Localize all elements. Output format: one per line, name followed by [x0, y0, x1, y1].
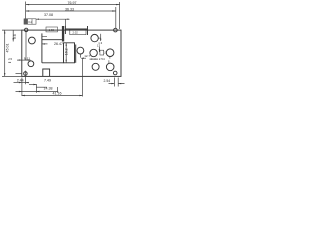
connector bar top-center [62, 26, 64, 42]
bottom ext 82.4 [82, 59, 84, 97]
dim line 37.08 [36, 19, 70, 26]
hole A extension [25, 32, 27, 60]
component rect center [64, 43, 75, 63]
bottom dim row1 [14, 82, 30, 84]
svg-text:26.47: 26.47 [54, 42, 63, 46]
board outline [22, 30, 121, 76]
svg-text:41.16: 41.16 [53, 91, 62, 95]
arrowheads 5.11 [19, 59, 22, 60]
leader 1.3 upper [100, 34, 102, 41]
feature frame box top-left [24, 19, 36, 24]
component top line [42, 39, 64, 41]
svg-text:1.63: 1.63 [49, 28, 55, 32]
tick below hole M2 [109, 56, 111, 58]
dim line 76.97 [26, 4, 120, 6]
hole A top-left small [25, 28, 28, 31]
arrowheads 14.38 [19, 91, 22, 92]
hole D left extension [16, 73, 23, 75]
bottom ext 36.4 [35, 84, 37, 93]
component bottom line left [42, 62, 64, 64]
svg-text:2.44: 2.44 [17, 79, 24, 83]
svg-text:0.2: 0.2 [28, 20, 32, 24]
hole BR bottom-right [106, 63, 114, 71]
top connector right vertical [87, 26, 89, 35]
arrowhead 13 leader [99, 49, 100, 52]
hole D bottom-left small [24, 72, 28, 76]
arrowhead 26.47 [42, 43, 45, 44]
bottom dim row3 41.16 [22, 95, 83, 97]
bottom dim row2 14.38 [16, 91, 59, 93]
hole mid with leader [77, 47, 84, 54]
arrowheads 16.2 [66, 43, 67, 46]
arrowheads 41.16 [22, 95, 25, 96]
bottom ext edge-left [21, 78, 23, 97]
arrowhead 12.7 [81, 58, 84, 59]
right dim 2.54 ext lines [114, 78, 118, 87]
svg-text:7.49: 7.49 [44, 79, 51, 83]
hole M1 mid-right [90, 49, 97, 56]
component second edge [75, 45, 77, 63]
svg-text:13: 13 [97, 44, 101, 48]
left small dim 9.6 [12, 30, 14, 41]
arrowheads 2.54 [111, 83, 114, 84]
hole B big left [29, 37, 36, 44]
dim line 36.33 [26, 10, 116, 12]
bottom ext 57.5 [57, 87, 59, 93]
svg-text:5.11: 5.11 [24, 57, 30, 61]
svg-text:14.38: 14.38 [44, 87, 53, 91]
left tiny marks 2.5 [8, 61, 11, 63]
leader 13 right cluster [98, 47, 100, 52]
arrowheads top dim2 [26, 10, 30, 11]
mid small rect between holes [100, 50, 104, 55]
svg-text:76.97: 76.97 [68, 1, 77, 5]
small dim right cluster [90, 58, 99, 60]
component top stub [42, 35, 47, 37]
arrowheads dim 37.08 [65, 19, 68, 20]
label box top-mid [46, 27, 58, 32]
bottom ext 25.6 [25, 71, 27, 85]
hole BL bottom-right-left [92, 63, 99, 70]
top connector left vertical [64, 26, 66, 34]
bottom connector rect [43, 69, 50, 76]
tick above hole BR [108, 60, 110, 63]
dim 26.47 arrow line [42, 43, 48, 45]
dim 16.2 inner line [65, 43, 67, 63]
svg-text:2.54: 2.54 [104, 79, 111, 83]
top connector inner box [70, 29, 86, 34]
component left vertical line [41, 33, 43, 62]
svg-text:12.7: 12.7 [84, 54, 90, 58]
svg-text:37.08: 37.08 [44, 13, 53, 17]
svg-text:2.54: 2.54 [99, 57, 105, 61]
arrowhead 1.3 leader [100, 39, 101, 42]
hole T right-upper [91, 34, 98, 41]
arrowheads small right dim [91, 59, 94, 60]
svg-text:2.02: 2.02 [73, 31, 79, 35]
tick right of hole T [98, 37, 101, 39]
arrowheads bottom 2.44 [19, 82, 22, 83]
hole f corner small [113, 71, 117, 75]
hole M2 mid-far-right [106, 49, 114, 57]
svg-text:2.5: 2.5 [8, 57, 12, 61]
hole top-right corner small [114, 28, 118, 32]
arrowheads top dim1 [26, 4, 30, 5]
right dim 2.54 line [109, 83, 125, 85]
left dim extension lines [2, 30, 22, 76]
svg-text:45.01: 45.01 [5, 44, 9, 53]
leader 12.7 under circle [80, 54, 86, 58]
svg-text:9.6: 9.6 [13, 34, 17, 39]
top dim extension lines [26, 2, 120, 30]
bottom shelf line [36, 86, 47, 88]
dim 5.11 line [17, 59, 31, 61]
bottom 7.49 arrow line [29, 84, 36, 86]
svg-text:36.33: 36.33 [65, 7, 74, 11]
top connector horizontal [65, 28, 87, 30]
hole C left-lower [28, 61, 34, 67]
arrowhead bottom 7.49 [33, 84, 36, 85]
svg-text:16.2: 16.2 [64, 48, 68, 55]
left dim line 45.01 [4, 30, 6, 76]
arrowhead left 9.6 [13, 38, 14, 41]
arrowheads left 45.01 [4, 30, 5, 33]
